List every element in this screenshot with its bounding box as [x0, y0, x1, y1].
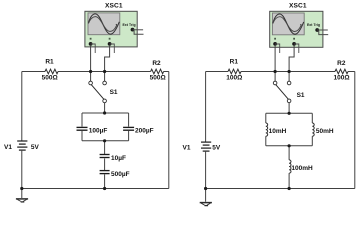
- wire ind box bottom: [266, 145, 313, 147]
- switch S1 right contact: [103, 81, 107, 85]
- wire cap box right upper: [128, 113, 130, 127]
- wire right center chain lower: [288, 173, 290, 188]
- svg-text:5V: 5V: [212, 145, 221, 152]
- svg-text:R2: R2: [152, 60, 161, 67]
- wire top rail left segment: [22, 71, 45, 73]
- capacitor C2 plates: [123, 127, 134, 130]
- inductor L3 coil: [289, 160, 291, 173]
- pin B- stub: [110, 44, 115, 53]
- junction dots right circuit: [204, 70, 291, 190]
- oscilloscope XSC1 screen: [88, 13, 120, 35]
- switch S1 right contact stub: [104, 72, 106, 82]
- wire cap box top: [82, 112, 129, 114]
- svg-text:XSC1: XSC1: [105, 3, 123, 10]
- wire top rail right segment: [164, 71, 169, 73]
- oscilloscope right terminal B: [292, 42, 296, 46]
- wire center chain upper: [104, 141, 106, 154]
- wire cap box left lower: [81, 131, 83, 141]
- switch S1 right ckt pole contact: [287, 99, 291, 103]
- svg-text:100Ω: 100Ω: [226, 75, 242, 82]
- wire ind box right lower: [311, 136, 313, 146]
- wire right center chain upper: [288, 146, 290, 160]
- resistor R1: [45, 69, 58, 74]
- wire top rail mid segment: [58, 71, 151, 73]
- wire switch pole down: [104, 103, 106, 113]
- oscilloscope XSC1 body: [85, 11, 137, 47]
- capacitor C3 plates: [100, 155, 110, 158]
- switch S1 right ckt blade: [276, 85, 289, 100]
- ground left stub: [21, 189, 23, 199]
- wire right top rail left segment: [206, 71, 228, 73]
- ground right symbol: [200, 203, 212, 206]
- svg-text:R2: R2: [337, 60, 346, 67]
- switch S1 right ckt left contact stub: [274, 72, 276, 82]
- resistor R1 right: [228, 69, 241, 74]
- wire right ext trig pigtail: [317, 29, 328, 31]
- svg-text:V1: V1: [4, 144, 12, 151]
- svg-text:S1: S1: [110, 89, 118, 96]
- oscilloscope XSC1 terminal B: [108, 42, 112, 46]
- resistor R2: [151, 69, 164, 74]
- capacitor C1 plates: [77, 127, 88, 130]
- oscilloscope XSC1 right screen: [272, 13, 304, 35]
- oscilloscope XSC1 terminal A: [89, 42, 93, 46]
- wire bottom rail right circuit: [206, 188, 355, 190]
- wire left branch upper: [21, 72, 23, 141]
- oscilloscope XSC1 channel A tick: [90, 38, 92, 40]
- switch S1 left contact: [89, 81, 93, 85]
- switch S1 right ckt left contact: [273, 81, 277, 85]
- svg-text:50mH: 50mH: [316, 128, 334, 135]
- oscilloscope XSC1 channel B tick: [109, 38, 111, 40]
- svg-text:100Ω: 100Ω: [333, 75, 349, 82]
- junction dots left circuit: [20, 70, 106, 190]
- oscilloscope XSC1 ext trig terminal: [131, 28, 135, 32]
- switch S1 blade: [91, 85, 104, 100]
- wire scope B jog down: [105, 45, 110, 72]
- svg-text:S1: S1: [297, 92, 305, 99]
- wire right top rail mid segment: [241, 71, 335, 73]
- wire left branch upper right circuit: [205, 72, 207, 143]
- oscilloscope right channel B tick: [293, 38, 295, 40]
- svg-text:Ext Trig: Ext Trig: [307, 23, 320, 27]
- svg-text:500µF: 500µF: [111, 171, 130, 178]
- oscilloscope right sine trace 2: [273, 17, 301, 32]
- svg-text:10µF: 10µF: [111, 155, 126, 162]
- wire right scope A down: [274, 45, 276, 72]
- svg-text:5V: 5V: [31, 144, 40, 151]
- wire center chain lower: [104, 174, 106, 188]
- svg-text:R1: R1: [45, 58, 54, 65]
- svg-text:V1: V1: [183, 145, 191, 152]
- svg-text:10mH: 10mH: [269, 128, 287, 135]
- inductor L1 coil: [266, 123, 268, 136]
- capacitor C4 plates: [100, 171, 110, 174]
- wire ind box top: [266, 112, 313, 114]
- wire ind box left lower: [265, 136, 267, 146]
- oscilloscope right terminal A: [273, 42, 277, 46]
- svg-text:100mH: 100mH: [291, 165, 313, 172]
- oscilloscope XSC1 sine trace 1: [88, 14, 119, 34]
- right pin A- stub: [275, 44, 280, 53]
- svg-text:R1: R1: [230, 58, 239, 65]
- wire ext trig pigtail: [133, 29, 144, 31]
- wire right switch pole down: [288, 103, 290, 114]
- wire ind box left upper: [265, 113, 267, 123]
- wire cap box bottom: [82, 140, 129, 142]
- wire right top rail right segment: [348, 71, 355, 73]
- ground left symbol: [16, 199, 28, 202]
- inductor L2 coil: [312, 123, 314, 136]
- oscilloscope right ext trig terminal: [315, 28, 319, 32]
- svg-text:500Ω: 500Ω: [150, 75, 166, 82]
- wire left branch lower: [21, 151, 23, 189]
- svg-text:100µF: 100µF: [89, 128, 108, 135]
- switch S1 left contact stub: [90, 72, 92, 82]
- switch S1 right ckt right contact stub: [288, 72, 290, 82]
- battery V1 right plates: [201, 142, 211, 151]
- wire right branch vertical right circuit: [354, 72, 356, 189]
- svg-text:XSC1: XSC1: [289, 3, 307, 10]
- wire ind box right upper: [311, 113, 313, 123]
- wire center chain mid: [104, 158, 106, 170]
- ground right stub: [205, 189, 207, 202]
- svg-text:200µF: 200µF: [135, 128, 154, 135]
- oscilloscope XSC1 right body: [270, 11, 323, 47]
- wire bottom rail: [22, 188, 169, 190]
- wire scope A down: [90, 45, 92, 72]
- switch S1 pole contact: [103, 99, 107, 103]
- wire cap box right lower: [128, 131, 130, 141]
- oscilloscope right sine trace 1: [273, 14, 304, 34]
- svg-text:Ext Trig: Ext Trig: [122, 23, 135, 27]
- oscilloscope XSC1 sine trace 2: [88, 17, 116, 32]
- right pin B- stub: [294, 44, 299, 53]
- battery V1 plates: [17, 141, 27, 150]
- switch S1 right ckt right contact: [287, 81, 291, 85]
- resistor R2 right: [335, 69, 348, 74]
- oscilloscope right channel A tick: [274, 38, 276, 40]
- wire cap box left upper: [81, 113, 83, 127]
- svg-text:500Ω: 500Ω: [42, 75, 58, 82]
- pin A- stub: [91, 44, 96, 53]
- wire left branch lower right circuit: [205, 152, 207, 189]
- wire right branch vertical: [168, 72, 170, 189]
- wire right scope B jog down: [289, 45, 294, 72]
